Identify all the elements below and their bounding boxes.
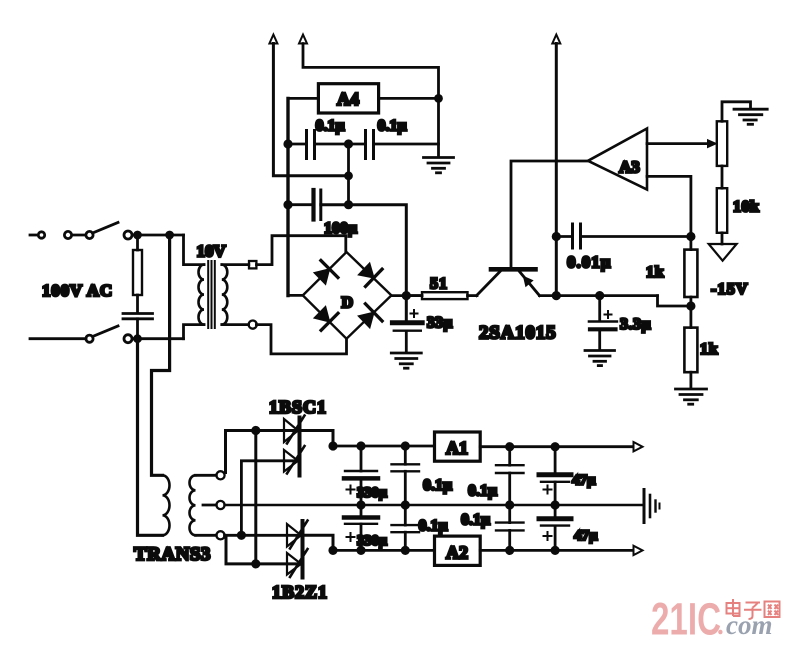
plus sign 47u lower <box>544 532 552 540</box>
ground top-right <box>734 109 767 124</box>
node dot out1 a <box>507 444 513 450</box>
node dot at caps mid column <box>346 173 352 179</box>
op-amp A3 <box>588 129 647 190</box>
wire 100u row right and down <box>321 205 407 321</box>
output arrow top <box>634 442 643 451</box>
svg-text:0.1μ: 0.1μ <box>468 483 497 500</box>
svg-text:0.1μ: 0.1μ <box>423 477 452 494</box>
node dot rail2 0.1u <box>402 547 408 553</box>
wire 0.1u row right <box>374 143 439 146</box>
svg-text:0.01μ: 0.01μ <box>567 253 611 272</box>
regulator A2 box <box>435 536 481 565</box>
node dot feed top <box>253 427 259 433</box>
wire pot middle <box>721 166 724 188</box>
svg-text:0.1μ: 0.1μ <box>316 118 345 135</box>
output arrow bottom <box>634 546 643 555</box>
wire secondary top to terminal <box>222 263 249 266</box>
node dot rail 0.1u <box>402 443 408 449</box>
positive rail to A1 <box>333 445 435 448</box>
node junction top-left <box>135 232 141 238</box>
node junction trans3 feed <box>167 232 173 238</box>
svg-text:1B2Z1: 1B2Z1 <box>272 582 328 602</box>
node dot between caps <box>345 141 351 147</box>
capacitor C1 0.1u <box>307 131 315 159</box>
plus sign 330u upper <box>347 486 355 494</box>
switch S1a top pole <box>30 223 132 240</box>
svg-text:0.1μ: 0.1μ <box>461 512 490 529</box>
wire bottom AC row <box>133 337 184 340</box>
svg-text:10V: 10V <box>197 242 227 261</box>
capacitor 0.1u upper-left <box>392 446 420 505</box>
transistor Q1 2SA1015 <box>477 269 540 295</box>
wire TRANS3 bottom terminal to 1B2Z1 <box>225 534 303 537</box>
node dot 1BSC1 out <box>330 443 336 449</box>
svg-text:A2: A2 <box>446 543 468 563</box>
output rail A1 right <box>480 445 632 448</box>
capacitor 0.1u upper-right <box>496 447 524 505</box>
node dot rail 330u <box>358 443 364 449</box>
plus sign 3.3u <box>605 311 612 318</box>
node dot main vertical bottom <box>553 292 559 298</box>
node dot feedback <box>688 233 694 239</box>
node dot cross bottom <box>253 561 259 567</box>
node dot 1B2Z1 out <box>330 547 336 553</box>
svg-text:1k: 1k <box>646 264 665 281</box>
negative rail to A2 <box>333 549 435 552</box>
regulator A1 box <box>435 432 481 461</box>
wire TRANS3 secondary tap <box>203 504 216 507</box>
wire between caps <box>315 143 366 146</box>
capacitor 33u <box>392 323 422 353</box>
potentiometer 10k lower half <box>717 188 727 233</box>
svg-text:A3: A3 <box>619 158 640 177</box>
node dot bridge output <box>403 292 409 298</box>
wire between 1k resistors <box>690 297 693 328</box>
terminal square secondary top <box>249 261 256 268</box>
ground under 3.3u <box>585 351 615 366</box>
transformer T1 core <box>208 261 215 328</box>
node junction bottom-left <box>135 336 141 342</box>
wire secondary top terminal to bridge top <box>257 236 346 265</box>
node dot mid rail 0.1u <box>402 502 408 508</box>
bridge diode bottom-left <box>314 307 338 331</box>
svg-text:1BSC1: 1BSC1 <box>269 397 327 417</box>
wire 0.1u row left <box>288 143 307 146</box>
capacitor 0.1u lower-left <box>392 505 420 550</box>
node dot cross mid <box>238 532 244 538</box>
bridge diode top-right <box>359 263 383 286</box>
node dot 100u mid <box>345 202 351 208</box>
capacitor 3.3u <box>589 296 617 350</box>
bridge rectifier D diamond <box>303 252 392 339</box>
terminal circle TRANS3 tap <box>216 501 224 509</box>
wire jog to 1k divider <box>658 296 691 306</box>
wire bottom cross row <box>226 538 303 564</box>
svg-text:10k: 10k <box>733 199 759 216</box>
power arrow up V2 <box>299 35 439 157</box>
wire 100u row left <box>288 203 312 206</box>
resistor 1k lower <box>684 328 697 373</box>
node dot 3.3u top <box>597 292 603 298</box>
wire bridge right vertex <box>391 294 422 297</box>
node dot mid rail 330u <box>358 502 364 508</box>
transformer T1 secondary winding 10V <box>222 265 228 325</box>
node dot out2 a <box>507 547 513 553</box>
svg-text:A4: A4 <box>337 89 359 109</box>
ground under 33u <box>391 353 421 368</box>
wire secondary bottom terminal to bridge bottom <box>256 325 346 354</box>
svg-text:47μ: 47μ <box>572 473 596 489</box>
power arrow up main <box>552 35 560 296</box>
node dot A4 right <box>436 95 442 101</box>
svg-text:1k: 1k <box>700 341 719 358</box>
svg-text:2SA1015: 2SA1015 <box>479 323 556 344</box>
switch S1b bottom pole <box>30 326 132 343</box>
power arrow up V+ <box>269 35 348 176</box>
cross wire bottom terminal to 1BSC1 lower diode <box>241 461 299 536</box>
watermark dianziwang characters <box>727 599 780 619</box>
wire TRANS3 top terminal to 1BSC1 <box>226 431 334 473</box>
capacitor 0.01u <box>556 224 691 248</box>
svg-text:100μ: 100μ <box>324 220 357 237</box>
svg-text:21IC: 21IC <box>651 594 721 645</box>
wire A4 right <box>379 97 439 100</box>
wire bridge left vertex <box>288 294 303 297</box>
capacitor 47u upper <box>539 447 571 505</box>
bridge diode top-left <box>314 261 338 285</box>
resistor line-filter <box>133 235 142 313</box>
node dot out1 b <box>552 444 558 450</box>
svg-text:-15V: -15V <box>711 281 749 298</box>
node dot out2 b <box>552 547 558 553</box>
svg-text:0.1μ: 0.1μ <box>378 118 407 135</box>
wire TRANS3 secondary bottom <box>196 534 217 537</box>
cross wire top terminal to 1B2Z1 lower diode <box>254 431 257 564</box>
wire A4 left <box>288 97 318 100</box>
wire base up and to A3 output <box>511 161 588 267</box>
ground under A4 right <box>424 158 454 173</box>
capacitor line-filter <box>123 314 153 339</box>
transformer T1 primary connections <box>184 235 205 265</box>
capacitor 330u lower <box>344 505 378 550</box>
resistor 1k upper <box>684 250 697 297</box>
svg-text:100V AC: 100V AC <box>42 281 113 300</box>
wire top AC row <box>133 234 184 237</box>
transformer T1 primary winding <box>199 265 204 325</box>
capacitor 47u lower <box>539 505 571 550</box>
wire TRANS3 secondary top <box>196 474 217 477</box>
bridge diode bottom-right <box>359 304 383 328</box>
plus sign 330u lower <box>347 533 355 541</box>
svg-text:TRANS3: TRANS3 <box>134 544 211 565</box>
capacitor 330u upper <box>344 446 378 505</box>
plus sign 33u <box>411 310 418 317</box>
svg-text:330μ: 330μ <box>357 485 388 501</box>
svg-text:330μ: 330μ <box>357 533 388 549</box>
svg-text:D: D <box>342 295 354 312</box>
ground under divider <box>676 389 707 404</box>
resistor 51 <box>410 292 478 299</box>
transformer TRANS3 primary winding <box>163 475 170 535</box>
regulator A4 box <box>318 84 378 113</box>
wire down to TRANS3 top with jog <box>152 235 170 475</box>
capacitor C3 100u <box>314 190 321 220</box>
node dot bus at 0.1u row <box>285 141 291 147</box>
node dot bus at 100u row <box>285 202 291 208</box>
terminal circle TRANS3 bottom <box>216 531 224 539</box>
svg-text:51: 51 <box>430 276 448 293</box>
wire A3 input bottom down <box>647 176 691 249</box>
potentiometer 10k upper half <box>717 121 727 166</box>
wire secondary bottom to terminal <box>222 323 249 326</box>
node dot 0.01u left <box>553 233 559 239</box>
svg-text:0.1μ: 0.1μ <box>419 518 448 535</box>
terminal circle secondary bottom <box>249 321 257 329</box>
wire 1B2Z1 out <box>303 535 334 550</box>
terminal circle TRANS3 top <box>216 471 224 479</box>
node dot divider <box>688 303 694 309</box>
wire down to TRANS3 bottom <box>138 339 163 536</box>
node dot mid rail right <box>507 502 513 508</box>
ground mid rail right side <box>644 490 660 523</box>
node dot mid rail 47u <box>552 502 558 508</box>
terminal -15V triangle <box>709 244 737 261</box>
wire emitter row right <box>540 294 658 297</box>
node column between rows <box>347 144 350 205</box>
svg-text:3.3μ: 3.3μ <box>620 316 651 333</box>
svg-text:33μ: 33μ <box>427 315 453 332</box>
wire A3 input top to pot wiper <box>647 140 717 148</box>
diode pack 1B2Z1 <box>287 521 308 578</box>
capacitor 0.1u lower-right <box>496 505 524 550</box>
plus sign 47u upper <box>544 486 552 494</box>
wire 1k lower to ground <box>690 372 693 388</box>
capacitor C2 0.1u <box>366 131 374 159</box>
left bus vertical <box>286 98 289 295</box>
node dot rail2 330u <box>358 547 364 553</box>
transformer TRANS3 secondary winding <box>190 475 196 535</box>
output rail A2 right <box>480 549 632 552</box>
mid rail wire <box>225 504 644 506</box>
svg-text:A1: A1 <box>446 438 468 458</box>
wire pot bottom <box>721 233 724 244</box>
wire pot top to ground <box>722 102 751 122</box>
diode pack 1BSC1 <box>284 416 305 476</box>
svg-text:.: . <box>718 610 725 640</box>
svg-text:47μ: 47μ <box>574 528 598 544</box>
